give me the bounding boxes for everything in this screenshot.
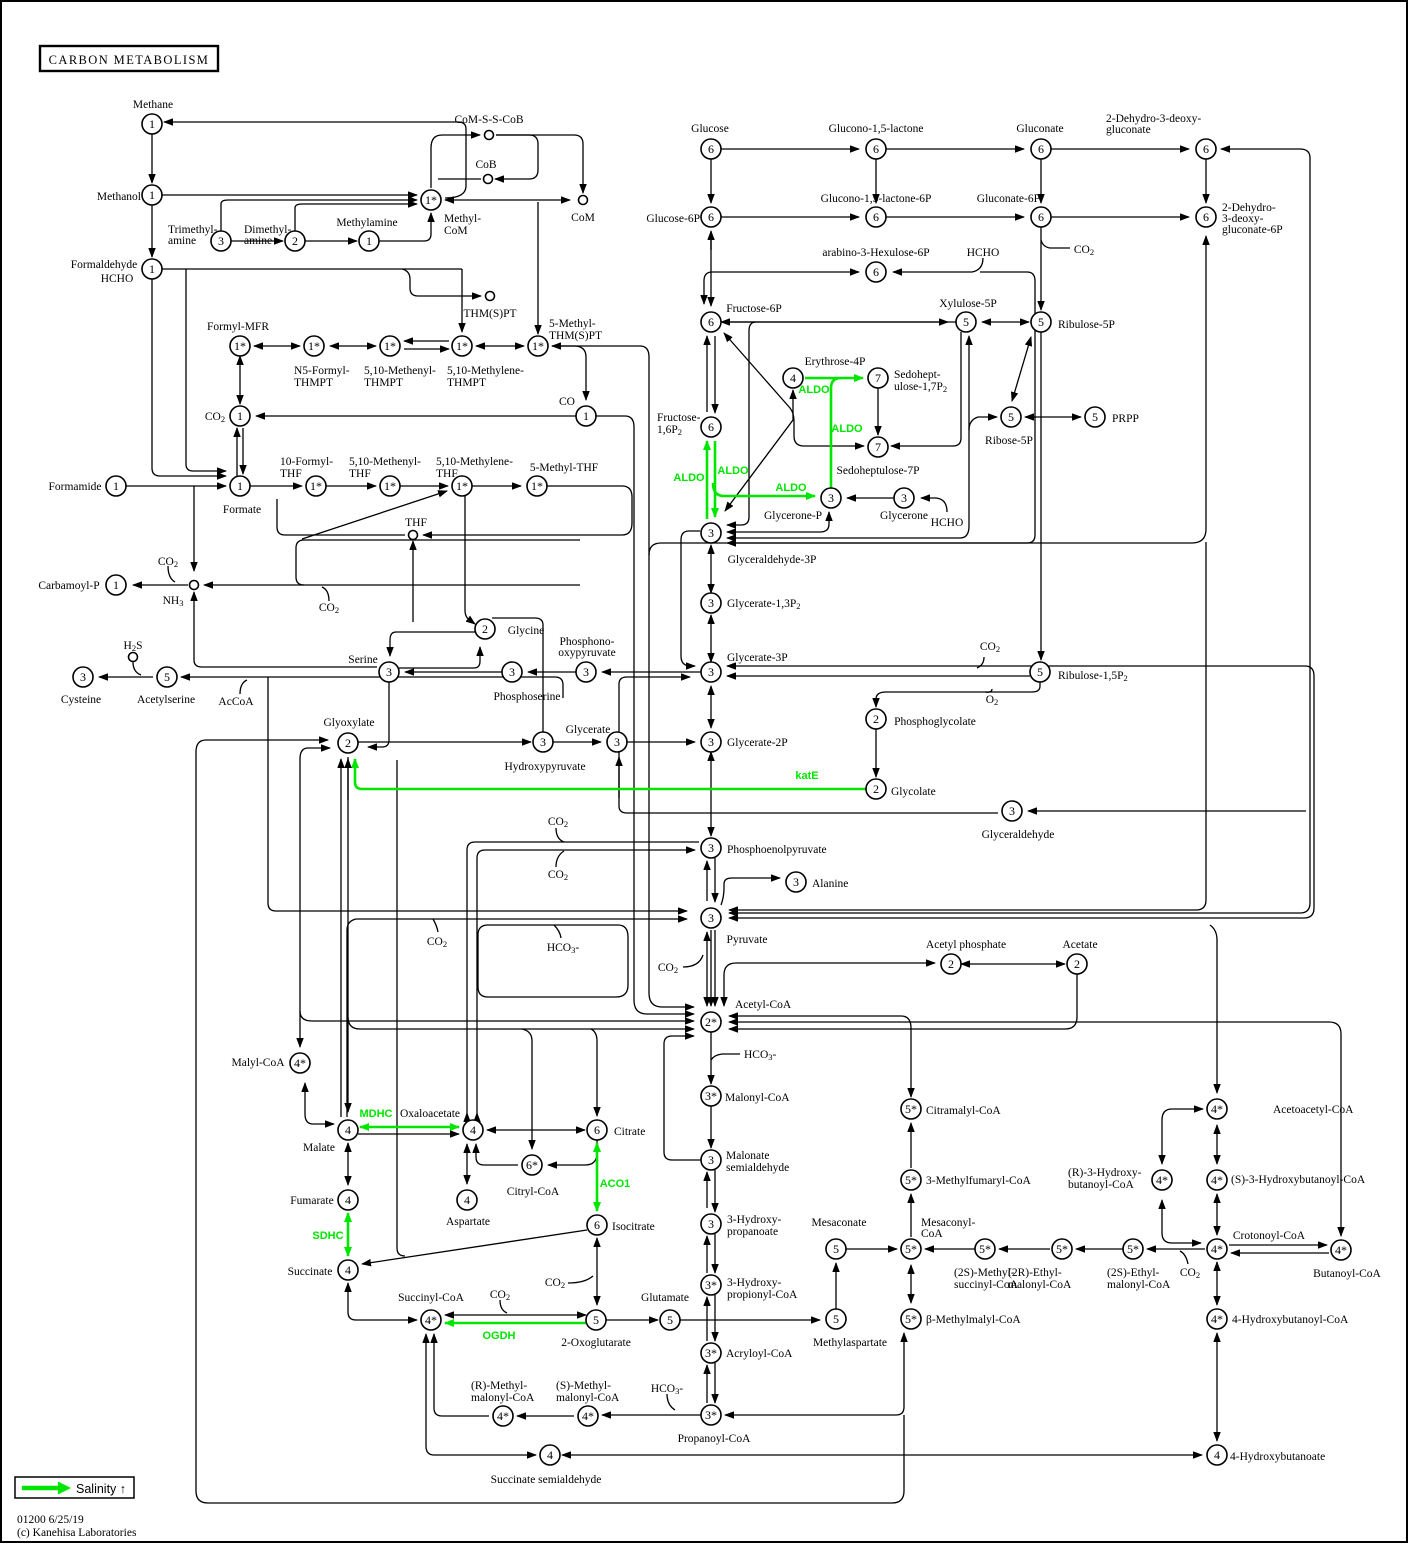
- svg-text:2: 2: [873, 712, 879, 726]
- svg-text:Formate: Formate: [223, 504, 261, 516]
- svg-text:4*: 4*: [1211, 1173, 1223, 1187]
- node 6: [866, 207, 886, 227]
- wire: [680, 1319, 820, 1321]
- node 6: [1031, 207, 1051, 227]
- svg-text:5: 5: [593, 1313, 599, 1327]
- svg-text:Glyoxylate: Glyoxylate: [323, 717, 374, 729]
- wire: [619, 806, 998, 813]
- svg-text:3: 3: [793, 875, 799, 889]
- wire: [466, 1150, 468, 1184]
- svg-text:3*: 3*: [705, 1089, 717, 1103]
- node 2: [866, 779, 886, 799]
- svg-text:(2S)-Ethyl-: (2S)-Ethyl-: [1107, 1267, 1160, 1279]
- svg-text:4: 4: [790, 371, 796, 385]
- wire: [725, 390, 793, 511]
- svg-text:Glucose: Glucose: [691, 123, 729, 135]
- wire: [476, 1144, 518, 1165]
- svg-text:6: 6: [708, 315, 714, 329]
- svg-text:OGDH: OGDH: [483, 1330, 516, 1342]
- wire: [296, 540, 580, 585]
- node 5: [1030, 662, 1050, 682]
- svg-text:CARBON METABOLISM: CARBON METABOLISM: [49, 53, 210, 67]
- node 3: [533, 732, 553, 752]
- node: [485, 131, 494, 140]
- svg-text:Sedohept-: Sedohept-: [894, 369, 941, 381]
- wire: [875, 729, 877, 777]
- svg-text:4*: 4*: [425, 1313, 437, 1327]
- svg-text:SDHC: SDHC: [312, 1230, 343, 1242]
- wire: [649, 236, 1206, 555]
- wire: [596, 1143, 599, 1211]
- svg-text:4*: 4*: [1156, 1173, 1168, 1187]
- wire: [326, 485, 376, 487]
- svg-text:Gluconate: Gluconate: [1016, 123, 1063, 135]
- node 4: [338, 1120, 358, 1140]
- svg-text:(R)-Methyl-: (R)-Methyl-: [471, 1380, 527, 1392]
- wire: [1216, 1333, 1218, 1441]
- node 6: [701, 312, 721, 332]
- node 1*: [452, 336, 472, 356]
- svg-text:(S)-3-Hydroxybutanoyl-CoA: (S)-3-Hydroxybutanoyl-CoA: [1231, 1174, 1366, 1186]
- node 3: [576, 662, 596, 682]
- node 4: [540, 1445, 560, 1465]
- node 6: [1196, 139, 1216, 159]
- wire: [710, 615, 712, 662]
- wire: [627, 741, 695, 743]
- svg-text:Oxaloacetate: Oxaloacetate: [400, 1108, 460, 1120]
- wire: [556, 828, 564, 842]
- svg-text:Isocitrate: Isocitrate: [612, 1221, 655, 1233]
- svg-text:6: 6: [1038, 210, 1044, 224]
- svg-text:4*: 4*: [1335, 1243, 1347, 1257]
- svg-text:5*: 5*: [905, 1102, 917, 1116]
- wire: [706, 861, 708, 901]
- svg-text:Ribulose-5P: Ribulose-5P: [1058, 319, 1115, 331]
- wire: [1231, 1252, 1329, 1254]
- node 6: [701, 207, 721, 227]
- wire: [710, 231, 712, 250]
- wire: [596, 1238, 598, 1305]
- node 3: [502, 662, 522, 682]
- wire: [522, 1029, 532, 1149]
- wire: [619, 677, 690, 806]
- svg-text:5: 5: [963, 315, 969, 329]
- svg-text:Glycerone: Glycerone: [880, 510, 928, 522]
- svg-text:Acetoacetyl-CoA: Acetoacetyl-CoA: [1273, 1104, 1354, 1116]
- wire: [875, 159, 877, 203]
- svg-text:Acetyl-CoA: Acetyl-CoA: [735, 999, 792, 1011]
- svg-text:β-Methylmalyl-CoA: β-Methylmalyl-CoA: [926, 1314, 1021, 1326]
- svg-text:01200 6/25/19: 01200 6/25/19: [17, 1514, 84, 1526]
- wire: [681, 531, 700, 666]
- svg-text:3: 3: [1009, 804, 1015, 818]
- wire: [910, 1194, 912, 1237]
- svg-text:1*: 1*: [384, 479, 396, 493]
- wire: [553, 741, 601, 743]
- svg-text:4: 4: [345, 1123, 351, 1137]
- svg-text:3*: 3*: [705, 1346, 717, 1360]
- svg-text:AcCoA: AcCoA: [218, 696, 254, 708]
- wire: [711, 1054, 740, 1060]
- svg-text:4: 4: [464, 1193, 470, 1207]
- svg-text:Fructose-6P: Fructose-6P: [726, 303, 782, 315]
- svg-text:3-Hydroxy-: 3-Hydroxy-: [727, 1277, 781, 1289]
- svg-text:Aspartate: Aspartate: [446, 1216, 490, 1228]
- wire: [242, 428, 244, 474]
- wire: [240, 680, 247, 694]
- svg-text:Acetylserine: Acetylserine: [137, 694, 195, 706]
- svg-text:6: 6: [1203, 210, 1209, 224]
- wire: [397, 760, 405, 1256]
- node 3*: [701, 1275, 721, 1295]
- wire: [835, 1263, 837, 1309]
- svg-text:Methane: Methane: [133, 99, 173, 111]
- wire: [1147, 1248, 1205, 1250]
- svg-text:ACO1: ACO1: [600, 1178, 631, 1190]
- wire: [664, 1036, 701, 1160]
- wire: [126, 485, 226, 487]
- wire: [710, 159, 712, 203]
- wire: [1229, 1244, 1327, 1246]
- wire: [186, 269, 226, 471]
- svg-text:propionyl-CoA: propionyl-CoA: [727, 1289, 798, 1301]
- wire: [400, 485, 448, 487]
- node 1*: [452, 476, 472, 496]
- svg-text:Succinate semialdehyde: Succinate semialdehyde: [491, 1474, 602, 1486]
- wire: [492, 618, 543, 732]
- wire: [402, 269, 481, 296]
- svg-text:(c) Kanehisa Laboratories: (c) Kanehisa Laboratories: [17, 1527, 137, 1539]
- svg-text:arabino-3-Hexulose-6P: arabino-3-Hexulose-6P: [822, 247, 929, 259]
- node 5: [826, 1309, 846, 1329]
- wire: [831, 378, 841, 489]
- wire: [554, 925, 561, 938]
- node 5*: [1123, 1239, 1143, 1259]
- node 2: [1067, 954, 1087, 974]
- svg-text:1*: 1*: [384, 339, 396, 353]
- wire: [846, 1248, 897, 1250]
- svg-text:Malyl-CoA: Malyl-CoA: [231, 1057, 285, 1069]
- svg-text:3*: 3*: [705, 1408, 717, 1422]
- svg-text:4*: 4*: [1211, 1102, 1223, 1116]
- wire: [476, 345, 524, 347]
- wire: [1216, 1125, 1218, 1164]
- svg-text:3-Methylfumaryl-CoA: 3-Methylfumaryl-CoA: [926, 1175, 1031, 1187]
- wire: [969, 417, 997, 430]
- wire: [254, 345, 300, 347]
- svg-text:Glycerate-3P: Glycerate-3P: [727, 652, 788, 664]
- svg-text:5,10-Methenyl-: 5,10-Methenyl-: [349, 456, 421, 468]
- svg-text:1*: 1*: [425, 193, 437, 207]
- svg-text:3: 3: [708, 1217, 714, 1231]
- svg-text:6: 6: [708, 210, 714, 224]
- node: [486, 292, 495, 301]
- wire: [517, 1415, 574, 1417]
- node 6: [866, 139, 886, 159]
- wire: [305, 1083, 334, 1124]
- wire: [714, 1170, 716, 1212]
- wire: [221, 200, 417, 231]
- svg-text:Formamide: Formamide: [48, 481, 101, 493]
- node 1*: [380, 336, 400, 356]
- svg-text:butanoyl-CoA: butanoyl-CoA: [1068, 1179, 1134, 1191]
- svg-text:5*: 5*: [1127, 1242, 1139, 1256]
- wire: [1040, 332, 1042, 660]
- svg-text:CoM: CoM: [571, 212, 595, 224]
- wire: [706, 1297, 708, 1341]
- svg-text:CoM-S-S-CoB: CoM-S-S-CoB: [454, 114, 523, 126]
- node 3*: [701, 1086, 721, 1106]
- svg-text:Acetate: Acetate: [1062, 939, 1097, 951]
- svg-text:Malonate: Malonate: [726, 1150, 769, 1162]
- wire: [348, 1283, 417, 1320]
- wire: [168, 566, 175, 582]
- svg-text:malonyl-CoA: malonyl-CoA: [556, 1392, 620, 1404]
- wire: [151, 205, 153, 257]
- svg-text:CoB: CoB: [475, 159, 496, 171]
- svg-text:Glyceraldehyde-3P: Glyceraldehyde-3P: [728, 554, 817, 566]
- wire: [591, 1029, 597, 1116]
- svg-text:(S)-Methyl-: (S)-Methyl-: [556, 1380, 611, 1392]
- wire: [704, 272, 712, 304]
- wire: [552, 346, 586, 400]
- wire: [999, 1248, 1050, 1250]
- svg-text:Glyceraldehyde: Glyceraldehyde: [982, 829, 1055, 841]
- wire: [710, 1106, 712, 1148]
- wire: [445, 199, 570, 201]
- wire: [379, 213, 431, 241]
- node 3: [701, 1150, 721, 1170]
- node 4*: [493, 1406, 513, 1426]
- wire: [202, 666, 377, 668]
- svg-text:1: 1: [149, 117, 155, 131]
- wire: [528, 671, 576, 673]
- svg-text:5: 5: [833, 1312, 839, 1326]
- wire: [602, 671, 701, 673]
- svg-text:1: 1: [113, 578, 119, 592]
- wire: [910, 1265, 912, 1303]
- node 3: [1002, 801, 1022, 821]
- svg-text:malonyl-CoA: malonyl-CoA: [1107, 1279, 1171, 1291]
- svg-text:3: 3: [509, 665, 515, 679]
- svg-text:5*: 5*: [1056, 1242, 1068, 1256]
- svg-text:2: 2: [873, 782, 879, 796]
- node 1: [359, 231, 379, 251]
- node 3: [701, 523, 721, 543]
- svg-text:THF: THF: [349, 468, 371, 480]
- wire: [300, 748, 330, 1047]
- svg-text:5: 5: [833, 1242, 839, 1256]
- wire: [204, 584, 304, 586]
- node 7: [868, 368, 888, 388]
- svg-text:Glucono-1,5-lactone-6P: Glucono-1,5-lactone-6P: [821, 193, 932, 205]
- wire: [133, 584, 188, 586]
- wire: [302, 491, 447, 539]
- node 5: [660, 1310, 680, 1330]
- svg-text:3: 3: [708, 596, 714, 610]
- svg-text:1: 1: [366, 234, 372, 248]
- wire: [714, 1363, 716, 1403]
- node 6: [587, 1215, 607, 1235]
- wire: [548, 1140, 597, 1165]
- svg-text:2*: 2*: [705, 1015, 717, 1029]
- node 2*: [701, 1012, 721, 1032]
- svg-text:CoM: CoM: [444, 225, 468, 237]
- svg-text:Methylaspartate: Methylaspartate: [813, 1337, 887, 1349]
- node 4*: [1152, 1170, 1172, 1190]
- node 6: [1196, 207, 1216, 227]
- svg-text:THF: THF: [405, 517, 427, 529]
- node 4: [338, 1190, 358, 1210]
- wire: [358, 1133, 459, 1135]
- svg-text:Fumarate: Fumarate: [290, 1195, 333, 1207]
- svg-text:gluconate: gluconate: [1106, 124, 1151, 136]
- wire: [239, 356, 241, 404]
- svg-text:6: 6: [594, 1123, 600, 1137]
- svg-text:MDHC: MDHC: [360, 1108, 393, 1120]
- svg-text:Methanol: Methanol: [97, 191, 141, 203]
- svg-text:6: 6: [1203, 142, 1209, 156]
- svg-text:1: 1: [237, 409, 243, 423]
- wire: [710, 545, 712, 593]
- wire: [478, 925, 628, 997]
- wire: [910, 1123, 912, 1168]
- legend box: [15, 1477, 134, 1498]
- svg-text:6: 6: [708, 142, 714, 156]
- node 3: [607, 732, 627, 752]
- wire: [727, 336, 969, 538]
- svg-text:Malonyl-CoA: Malonyl-CoA: [725, 1092, 790, 1104]
- node 3: [379, 662, 399, 682]
- wire: [847, 497, 894, 499]
- svg-text:Citryl-CoA: Citryl-CoA: [507, 1186, 560, 1198]
- wire: [1076, 1248, 1123, 1250]
- svg-text:Acetyl phosphate: Acetyl phosphate: [926, 939, 1006, 951]
- svg-text:2-Oxoglutarate: 2-Oxoglutarate: [561, 1337, 631, 1349]
- svg-text:3: 3: [583, 665, 589, 679]
- wire: [729, 1022, 1341, 1236]
- svg-text:Phosphoglycolate: Phosphoglycolate: [894, 716, 976, 728]
- svg-text:ulose-1,7P2​: ulose-1,7P2​: [894, 381, 947, 394]
- svg-text:ALDO: ALDO: [673, 472, 705, 484]
- svg-text:5,10-Methenyl-: 5,10-Methenyl-: [364, 365, 436, 377]
- wire: [729, 1016, 911, 1097]
- wire: [487, 1129, 585, 1131]
- wire: [721, 321, 948, 323]
- wire: [1041, 240, 1070, 248]
- wire: [348, 1017, 694, 1029]
- svg-text:3: 3: [708, 841, 714, 855]
- node 1: [106, 575, 126, 595]
- node 1: [106, 476, 126, 496]
- svg-text:Cysteine: Cysteine: [61, 694, 101, 706]
- wire: [714, 441, 717, 517]
- wire: [706, 441, 709, 519]
- svg-text:5*: 5*: [905, 1242, 917, 1256]
- wire: [330, 345, 376, 347]
- svg-text:5*: 5*: [905, 1173, 917, 1187]
- wire: [721, 148, 859, 150]
- svg-text:6: 6: [873, 210, 879, 224]
- svg-text:(2R)-Ethyl-: (2R)-Ethyl-: [1008, 1267, 1062, 1279]
- svg-text:2: 2: [345, 736, 351, 750]
- wire: [729, 149, 1310, 913]
- wire: [268, 677, 687, 911]
- node 3: [211, 231, 231, 251]
- wire: [925, 1248, 975, 1250]
- svg-text:propanoate: propanoate: [727, 1226, 778, 1238]
- node 5*: [901, 1239, 921, 1259]
- node 1*: [306, 476, 326, 496]
- wire: [360, 1126, 459, 1129]
- wire: [886, 148, 1024, 150]
- node: [484, 175, 493, 184]
- wire: [236, 428, 238, 476]
- node 3*: [701, 1343, 721, 1363]
- node 1: [142, 259, 162, 279]
- wire: [714, 858, 716, 902]
- svg-text:ALDO: ALDO: [831, 423, 863, 435]
- node 3*: [701, 1405, 721, 1425]
- node 3: [701, 593, 721, 613]
- wire: [500, 1300, 507, 1313]
- svg-text:THF: THF: [436, 468, 458, 480]
- svg-text:3: 3: [708, 735, 714, 749]
- wire: [1162, 1109, 1203, 1164]
- svg-text:4*: 4*: [1211, 1312, 1223, 1326]
- wire: [404, 348, 449, 350]
- wire: [277, 499, 405, 535]
- node 6: [587, 1120, 607, 1140]
- wire: [729, 542, 1206, 910]
- node 6: [866, 262, 886, 282]
- wire: [164, 122, 466, 198]
- svg-text:2: 2: [292, 234, 298, 248]
- svg-text:Pyruvate: Pyruvate: [727, 934, 768, 946]
- node 6*: [522, 1155, 542, 1175]
- node 4*: [1207, 1239, 1227, 1259]
- wire: [1216, 1262, 1218, 1305]
- svg-text:1*: 1*: [531, 479, 543, 493]
- svg-text:4: 4: [345, 1193, 351, 1207]
- svg-text:5: 5: [164, 670, 170, 684]
- legend arrow: [22, 1486, 58, 1491]
- svg-text:HCHO: HCHO: [101, 273, 134, 285]
- svg-text:Acryloyl-CoA: Acryloyl-CoA: [726, 1348, 793, 1360]
- wire: [893, 258, 983, 272]
- svg-text:THMPT: THMPT: [364, 377, 403, 389]
- node 4*: [1207, 1170, 1227, 1190]
- node 1*: [528, 336, 548, 356]
- node 1: [576, 406, 596, 426]
- wire: [727, 675, 1030, 677]
- node 5: [157, 667, 177, 687]
- wire: [1025, 416, 1081, 418]
- svg-text:3: 3: [80, 670, 86, 684]
- node 1*: [304, 336, 324, 356]
- svg-text:6*: 6*: [526, 1158, 538, 1172]
- wire: [250, 485, 302, 487]
- wire: [713, 483, 815, 496]
- svg-text:4: 4: [547, 1448, 553, 1462]
- node 5: [826, 1239, 846, 1259]
- wire: [714, 930, 716, 1006]
- wire: [358, 741, 531, 743]
- svg-text:N5-Formyl-: N5-Formyl-: [294, 365, 350, 377]
- wire: [727, 666, 1314, 918]
- wire: [362, 1230, 587, 1264]
- node 5*: [1052, 1239, 1072, 1259]
